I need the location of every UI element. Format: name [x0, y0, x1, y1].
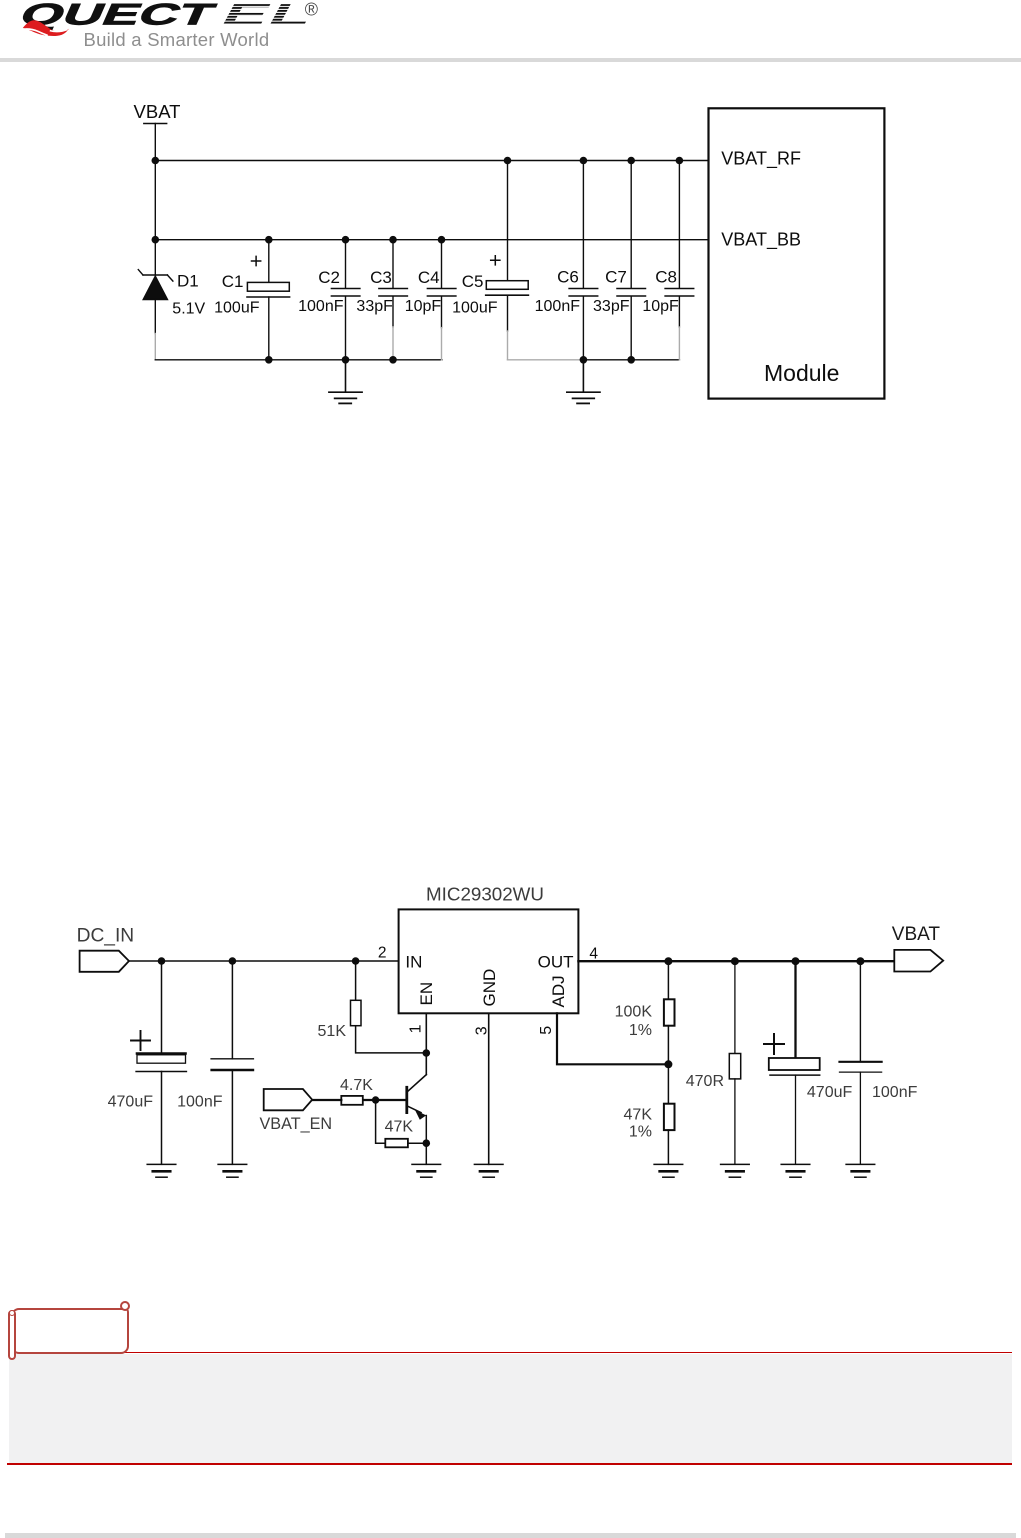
svg-text:VBAT_BB: VBAT_BB — [721, 230, 801, 251]
note tab knob circle — [120, 1301, 130, 1311]
ground symbol 100nF output — [846, 1164, 875, 1177]
pin ADJ label — [549, 975, 568, 1007]
svg-text:D1: D1 — [177, 272, 199, 291]
transistor Q1 NPN — [407, 1075, 427, 1144]
header rule — [0, 58, 1021, 62]
svg-text:1%: 1% — [629, 1022, 652, 1039]
junction VBAT x BB rail — [152, 236, 160, 244]
label DC_IN — [77, 925, 135, 946]
note tab body — [11, 1308, 129, 1354]
svg-text:VBAT: VBAT — [134, 101, 181, 122]
svg-text:1: 1 — [407, 1024, 424, 1033]
junction base node — [372, 1096, 379, 1103]
label C3 — [370, 268, 392, 287]
svg-text:3: 3 — [473, 1026, 490, 1035]
junction EN node — [423, 1049, 431, 1057]
pin number 5 — [538, 1026, 555, 1035]
svg-text:C6: C6 — [557, 267, 579, 286]
svg-text:MIC29302WU: MIC29302WU — [426, 884, 544, 905]
Quectel logo — [0, 0, 340, 56]
wire DC_IN rail to IC IN — [129, 960, 399, 962]
ground symbol 470R — [721, 1164, 750, 1177]
label C2 — [318, 268, 340, 287]
svg-text:C3: C3 — [370, 268, 392, 287]
value 100nF output — [872, 1084, 918, 1101]
svg-text:100K: 100K — [615, 1003, 653, 1020]
svg-text:VBAT: VBAT — [892, 924, 941, 945]
resistor R 47K — [385, 1139, 408, 1148]
capacitor C1 — [247, 240, 290, 360]
svg-text:10pF: 10pF — [642, 298, 679, 315]
value 10pF — [405, 298, 442, 315]
value 100uF — [452, 300, 498, 317]
svg-text:100nF: 100nF — [535, 298, 581, 315]
junction C7 x RF rail — [627, 157, 635, 165]
wire VBAT down to BB rail — [154, 161, 156, 240]
svg-text:VBAT_RF: VBAT_RF — [721, 149, 801, 170]
svg-text:OUT: OUT — [538, 952, 574, 971]
capacitor 470uF output — [764, 961, 820, 1164]
zener diode D1 — [138, 270, 173, 300]
svg-text:C8: C8 — [655, 267, 677, 286]
value 33pF — [356, 298, 393, 315]
label D1 — [177, 272, 199, 291]
value 100nF input — [177, 1093, 223, 1110]
resistor R 47K 1% — [664, 1064, 675, 1164]
wire OUT rail — [578, 960, 894, 962]
svg-text:33pF: 33pF — [593, 298, 630, 315]
junction 470uF input — [158, 957, 166, 965]
capacitor 100nF input — [211, 961, 253, 1164]
junction 51K — [352, 957, 360, 965]
junction OUT x 470R — [731, 957, 739, 965]
svg-text:4.7K: 4.7K — [340, 1077, 373, 1094]
junction C4 x BB rail — [438, 236, 446, 244]
resistor R 100K 1% — [664, 961, 675, 1064]
connector VBAT output — [894, 950, 943, 972]
svg-text:100uF: 100uF — [214, 300, 260, 317]
wire VBAT down to RF rail — [154, 124, 156, 161]
junction C3 x gnd rail — [389, 356, 397, 364]
svg-text:470uF: 470uF — [108, 1093, 154, 1110]
pin VBAT_BB — [721, 230, 801, 251]
value 100K — [615, 1003, 653, 1020]
junction C1 x gnd rail — [265, 356, 273, 364]
label C7 — [605, 267, 627, 286]
label C8 — [655, 267, 677, 286]
wire D1 cathode — [154, 240, 156, 275]
svg-text:5: 5 — [538, 1026, 555, 1035]
label C4 — [418, 268, 440, 287]
capacitor 470uF input — [131, 961, 186, 1164]
junction ADJ node — [664, 1060, 672, 1068]
capacitor C2 — [331, 240, 360, 360]
svg-text:4: 4 — [589, 946, 598, 963]
svg-text:C4: C4 — [418, 268, 440, 287]
pin OUT label — [538, 952, 574, 971]
label MIC29302WU — [426, 884, 544, 905]
value 51K — [318, 1023, 347, 1040]
wire gnd rail 1 — [155, 359, 442, 361]
connector DC_IN — [80, 951, 129, 972]
pin IN label — [405, 952, 422, 971]
wire D1 anode down — [154, 300, 156, 334]
module box U (Module) — [709, 108, 885, 398]
note tab pill top circle — [9, 1310, 15, 1316]
svg-text:470uF: 470uF — [807, 1084, 853, 1101]
svg-text:EN: EN — [417, 982, 436, 1006]
value 47K lower — [624, 1107, 653, 1124]
pin number 4 — [589, 946, 598, 963]
svg-text:470R: 470R — [686, 1073, 724, 1090]
svg-text:100uF: 100uF — [452, 300, 498, 317]
junction C2 x gnd rail — [342, 356, 350, 364]
ground symbol 47K — [654, 1164, 683, 1177]
logo wordmark EL striped — [215, 0, 323, 31]
junction OUT x 100K — [664, 957, 672, 965]
note tab left pill — [8, 1310, 16, 1361]
footer bar — [5, 1533, 1016, 1538]
ground symbol emitter — [412, 1164, 441, 1177]
wire VBAT_RF rail — [155, 160, 708, 162]
capacitor C7 — [617, 161, 646, 360]
svg-text:51K: 51K — [318, 1023, 347, 1040]
value 100nF — [298, 298, 344, 315]
svg-text:C7: C7 — [605, 267, 627, 286]
value 470uF output — [807, 1084, 853, 1101]
wire emitter to ground — [425, 1143, 427, 1164]
junction C6 x gnd rail2 — [580, 356, 588, 364]
svg-text:GND: GND — [480, 969, 499, 1007]
node VBAT (schematic 1) — [134, 101, 181, 122]
svg-text:10pF: 10pF — [405, 298, 442, 315]
gray band — [9, 1354, 1012, 1463]
junction C5 x RF rail — [504, 157, 512, 165]
value 10pF — [642, 298, 679, 315]
wire VBAT_EN to 4.7K — [312, 1099, 341, 1101]
ground symbol input 470uF — [147, 1164, 176, 1177]
capacitor 100nF output — [840, 961, 882, 1164]
capacitor C5 — [486, 161, 529, 360]
junction C1 x BB rail — [265, 236, 273, 244]
pin number 2 — [378, 945, 387, 962]
junction OUT x 470uF — [792, 957, 800, 965]
junction VBAT x RF rail — [152, 157, 160, 165]
resistor R 470R — [729, 961, 740, 1164]
value 100nF — [535, 298, 581, 315]
svg-text:DC_IN: DC_IN — [77, 925, 135, 946]
junction C8 x RF rail — [676, 157, 684, 165]
label VBAT_EN — [260, 1115, 333, 1133]
wire gnd rail 2 — [583, 359, 679, 361]
svg-text:2: 2 — [378, 945, 387, 962]
wire gnd rail 2 gray part — [508, 359, 584, 361]
regulator U MIC29302WU box — [399, 909, 579, 1013]
junction C3 x BB rail — [389, 236, 397, 244]
svg-text:100nF: 100nF — [177, 1093, 223, 1110]
svg-text:C2: C2 — [318, 268, 340, 287]
pin GND label — [480, 969, 499, 1007]
wire 47K to emitter — [408, 1142, 426, 1144]
capacitor C3 — [379, 240, 408, 360]
svg-text:33pF: 33pF — [356, 298, 393, 315]
pin VBAT_RF — [721, 149, 801, 170]
svg-text:ADJ: ADJ — [549, 975, 568, 1007]
capacitor C4 — [427, 240, 456, 360]
svg-text:5.1V: 5.1V — [172, 300, 205, 317]
svg-text:VBAT_EN: VBAT_EN — [260, 1115, 333, 1133]
value 1% lower — [629, 1123, 652, 1140]
wire ADJ pin 5 — [557, 1013, 669, 1064]
svg-text:47K: 47K — [385, 1119, 414, 1136]
junction C2 x BB rail — [342, 236, 350, 244]
svg-text:Module: Module — [764, 360, 839, 386]
value 470uF input — [108, 1093, 154, 1110]
value 5.1V — [172, 300, 205, 317]
ground symbol 470uF output — [781, 1164, 810, 1177]
capacitor C8 — [665, 161, 694, 360]
logo red swoosh — [23, 20, 69, 36]
label C1 — [222, 272, 244, 291]
value 1% upper — [629, 1022, 652, 1039]
VBAT terminal tick — [144, 123, 167, 125]
wire base — [363, 1099, 407, 1101]
svg-text:47K: 47K — [624, 1107, 653, 1124]
value 47K — [385, 1119, 414, 1136]
ground symbol GND pin — [474, 1164, 503, 1177]
wire GND pin 3 — [488, 1013, 490, 1164]
resistor R 4.7K — [341, 1096, 363, 1105]
label Module — [764, 360, 839, 386]
value 100uF — [214, 300, 260, 317]
svg-text:C5: C5 — [462, 272, 484, 291]
wire VBAT_BB rail — [155, 239, 708, 241]
label C6 — [557, 267, 579, 286]
value 33pF — [593, 298, 630, 315]
pin number 1 — [407, 1024, 424, 1033]
capacitor C6 — [569, 161, 598, 360]
svg-text:1%: 1% — [629, 1123, 652, 1140]
value 470R — [686, 1073, 724, 1090]
label C5 — [462, 272, 484, 291]
logo wordmark QUECT — [15, 0, 221, 31]
wire base to 47K — [376, 1100, 386, 1143]
svg-text:100nF: 100nF — [298, 298, 344, 315]
junction emitter node — [423, 1139, 431, 1147]
pin number 3 — [473, 1026, 490, 1035]
junction 100nF input — [229, 957, 237, 965]
ground symbol schematic1 right — [567, 360, 600, 404]
value 4.7K — [340, 1077, 373, 1094]
junction C6 x RF rail — [580, 157, 588, 165]
junction OUT x 100nF — [856, 957, 864, 965]
ground symbol schematic1 left — [329, 360, 362, 404]
red line bottom of band — [7, 1463, 1013, 1465]
connector VBAT_EN — [264, 1089, 313, 1110]
junction C7 x gnd rail2 — [627, 356, 635, 364]
label VBAT output — [892, 924, 941, 945]
wire D1 anode down gray part — [154, 334, 156, 360]
svg-text:IN: IN — [405, 952, 422, 971]
ground symbol input 100nF — [218, 1164, 247, 1177]
resistor R 51K — [351, 961, 427, 1053]
red line top of band — [123, 1352, 1012, 1354]
svg-text:C1: C1 — [222, 272, 244, 291]
svg-text:100nF: 100nF — [872, 1084, 918, 1101]
wire EN pin — [425, 1013, 427, 1074]
pin EN label — [417, 982, 436, 1006]
